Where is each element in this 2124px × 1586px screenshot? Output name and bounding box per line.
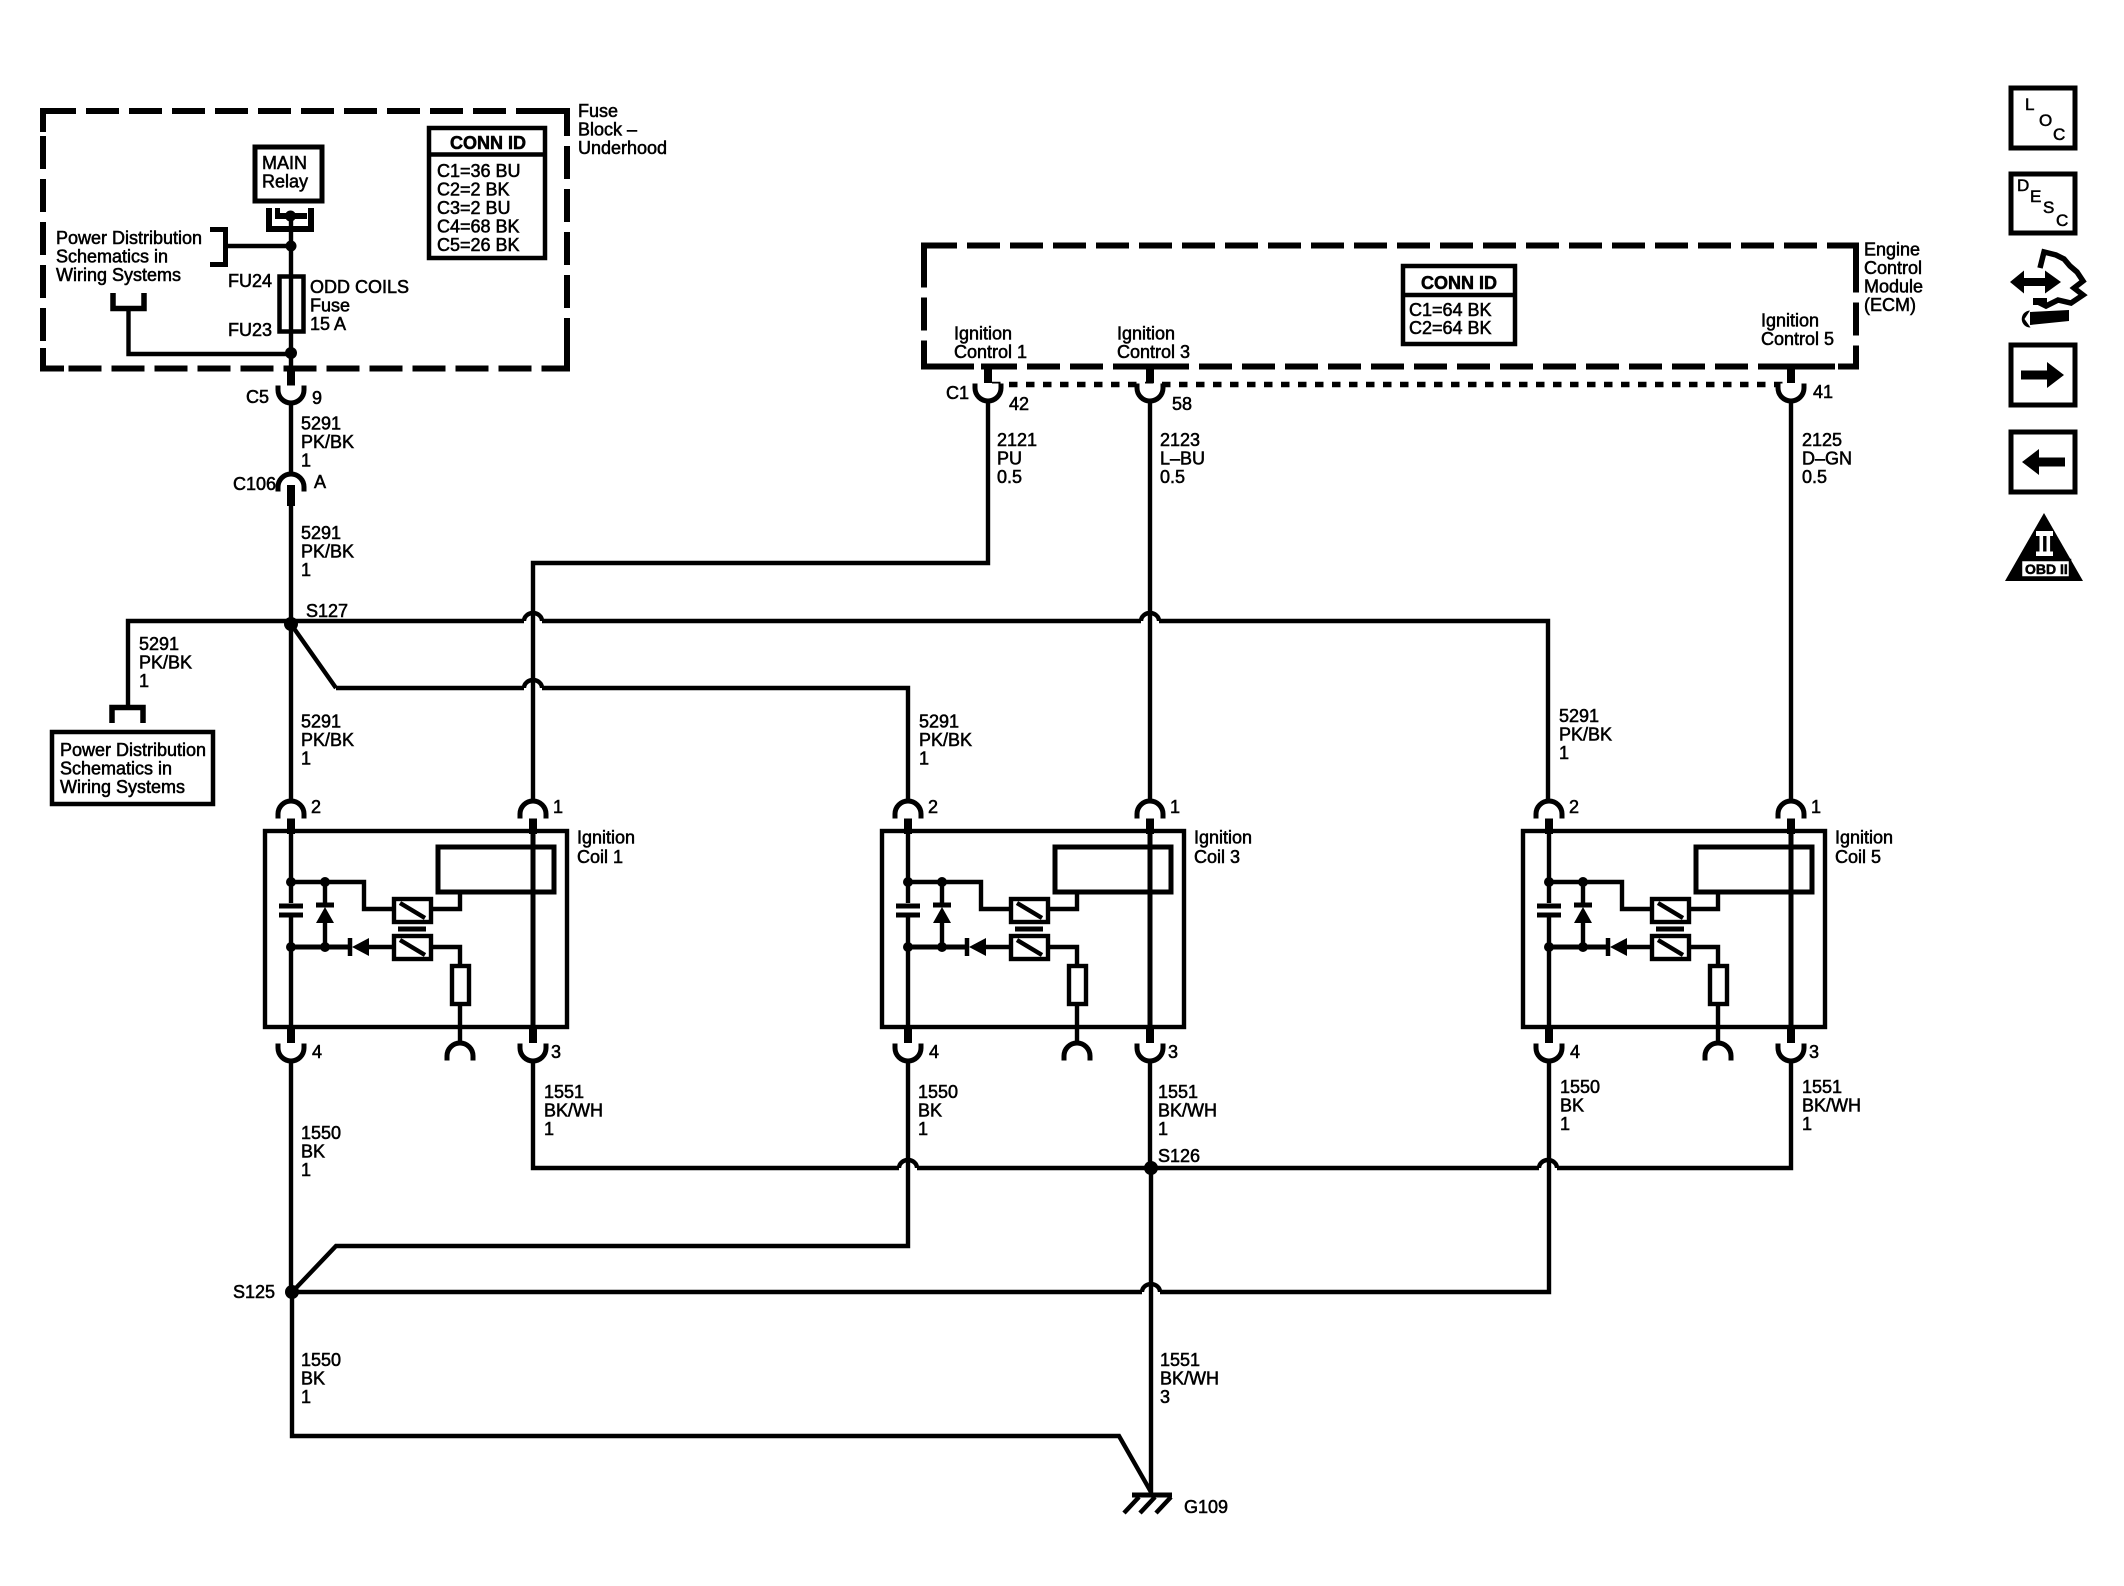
svg-text:1: 1 — [1158, 1119, 1168, 1139]
svg-text:2123: 2123 — [1160, 430, 1200, 450]
wire bracket to relay output — [225, 244, 291, 248]
junction dot below relay — [286, 241, 297, 252]
svg-text:Coil 5: Coil 5 — [1835, 847, 1881, 867]
svg-text:C5=26 BK: C5=26 BK — [437, 235, 520, 255]
svg-text:ODD COILS: ODD COILS — [310, 277, 409, 297]
fuse ODD COILS body — [280, 277, 304, 332]
crossover hop at coil5 pin4 wire — [1539, 1160, 1557, 1168]
crossover hop at coil1 pin1 wire — [524, 613, 542, 621]
crossover hop at coil1 pin1 wire — [524, 680, 542, 688]
svg-text:1: 1 — [301, 1160, 311, 1180]
svg-text:5291: 5291 — [1559, 706, 1599, 726]
svg-text:15 A: 15 A — [310, 314, 346, 334]
svg-text:1550: 1550 — [1560, 1077, 1600, 1097]
wire C5 to C106 — [289, 401, 293, 475]
wire S126 to ground G109 — [1149, 1168, 1153, 1494]
svg-text:PK/BK: PK/BK — [301, 730, 354, 750]
wire 2123 L-BU: pin 58 to coil 3 pin 1 — [1148, 399, 1152, 802]
svg-text:OBD II: OBD II — [2025, 561, 2068, 577]
svg-text:PK/BK: PK/BK — [301, 432, 354, 452]
svg-text:O: O — [2039, 111, 2052, 130]
CONN ID table (fuse block) — [429, 128, 545, 258]
svg-text:2121: 2121 — [997, 430, 1037, 450]
ECM pin 41 — [1787, 366, 1795, 383]
power distribution feed bracket (lower) — [113, 293, 144, 309]
ECM border solid segments at pin exits — [981, 364, 1835, 370]
connector C5 pin 9 — [287, 366, 295, 386]
svg-text:BK: BK — [1560, 1096, 1584, 1116]
harness routing icon (double arrow, connector outline, wrench) — [2010, 252, 2083, 328]
ECM pin 42 — [984, 366, 992, 383]
wire S127 to coil 3 pin 2 (diagonal, with crossover) — [293, 627, 908, 802]
power distribution reference bracket (top) — [210, 230, 226, 265]
wire coil 1 pin 3 to splice S126 line — [533, 1059, 1791, 1168]
svg-text:3: 3 — [1160, 1387, 1170, 1407]
svg-text:0.5: 0.5 — [997, 467, 1022, 487]
wire coil 1 pin 4 down to splice S125 — [289, 1059, 293, 1288]
svg-text:Control 3: Control 3 — [1117, 342, 1190, 362]
svg-text:C1=36 BU: C1=36 BU — [437, 161, 521, 181]
svg-text:Ignition: Ignition — [1835, 828, 1893, 848]
svg-text:D–GN: D–GN — [1802, 449, 1852, 469]
splice S126 — [1144, 1161, 1158, 1175]
svg-text:1: 1 — [918, 1119, 928, 1139]
wire S125 diagonal to coil 3 pin 4 — [295, 1059, 908, 1289]
svg-text:1: 1 — [301, 749, 311, 769]
svg-text:PU: PU — [997, 449, 1022, 469]
svg-text:0.5: 0.5 — [1802, 467, 1827, 487]
svg-text:Wiring Systems: Wiring Systems — [56, 265, 181, 285]
svg-text:G109: G109 — [1184, 1497, 1228, 1517]
svg-text:PK/BK: PK/BK — [919, 730, 972, 750]
svg-text:S127: S127 — [306, 601, 348, 621]
svg-text:C1: C1 — [946, 383, 969, 403]
svg-text:1: 1 — [301, 451, 311, 471]
wire S125 to coil 5 pin 4 (with crossover) — [292, 1059, 1549, 1292]
svg-text:0.5: 0.5 — [1160, 467, 1185, 487]
LOC icon box — [2011, 88, 2075, 148]
svg-text:Ignition: Ignition — [577, 828, 635, 848]
fuse block outline corners — [43, 111, 567, 369]
svg-text:A: A — [314, 472, 326, 492]
svg-text:PK/BK: PK/BK — [1559, 725, 1612, 745]
svg-text:1: 1 — [139, 671, 149, 691]
svg-text:FU23: FU23 — [228, 320, 272, 340]
svg-text:BK: BK — [301, 1369, 325, 1389]
svg-text:Ignition: Ignition — [1117, 324, 1175, 344]
svg-text:C4=68 BK: C4=68 BK — [437, 217, 520, 237]
svg-text:5291: 5291 — [301, 712, 341, 732]
svg-text:BK/WH: BK/WH — [544, 1101, 603, 1121]
svg-text:Coil 1: Coil 1 — [577, 847, 623, 867]
svg-text:1551: 1551 — [544, 1082, 584, 1102]
svg-text:1551: 1551 — [1802, 1077, 1842, 1097]
svg-text:(ECM): (ECM) — [1864, 295, 1916, 315]
svg-text:41: 41 — [1813, 382, 1833, 402]
svg-text:Ignition: Ignition — [1761, 311, 1819, 331]
svg-text:1: 1 — [1802, 1114, 1812, 1134]
svg-text:1: 1 — [1560, 1114, 1570, 1134]
MAIN Relay box — [255, 147, 322, 201]
svg-text:5291: 5291 — [139, 634, 179, 654]
ECM pin 58 — [1146, 366, 1154, 383]
splice S125 — [285, 1285, 299, 1299]
ignition coil 3 — [882, 797, 1184, 1062]
splice S127 — [284, 617, 298, 631]
svg-text:S126: S126 — [1158, 1146, 1200, 1166]
svg-text:L: L — [2025, 95, 2034, 114]
svg-text:1550: 1550 — [301, 1350, 341, 1370]
ignition coil 5 — [1523, 797, 1825, 1062]
svg-text:1551: 1551 — [1158, 1082, 1198, 1102]
relay cavity bracket — [269, 208, 311, 229]
svg-text:CONN ID: CONN ID — [1421, 273, 1497, 293]
svg-text:Control 5: Control 5 — [1761, 329, 1834, 349]
wire S127 to left power distribution bracket — [128, 621, 291, 705]
CONN ID table (ECM) — [1403, 266, 1515, 344]
svg-text:S: S — [2043, 198, 2054, 217]
svg-text:Fuse: Fuse — [578, 101, 618, 121]
svg-text:BK: BK — [301, 1142, 325, 1162]
svg-text:CONN ID: CONN ID — [450, 133, 526, 153]
svg-text:1551: 1551 — [1160, 1350, 1200, 1370]
svg-text:42: 42 — [1009, 394, 1029, 414]
svg-text:Power Distribution: Power Distribution — [56, 228, 202, 248]
crossover hop at coil3 pin1 wire — [1141, 613, 1159, 621]
svg-text:C106: C106 — [233, 474, 276, 494]
svg-text:C5: C5 — [246, 387, 269, 407]
ECM C1 connector face dotted line — [992, 382, 1791, 388]
svg-text:Underhood: Underhood — [578, 138, 667, 158]
svg-text:Schematics in: Schematics in — [60, 759, 172, 779]
svg-text:Control 1: Control 1 — [954, 342, 1027, 362]
wire coil 3 pin 3 down to S126 — [1148, 1059, 1152, 1168]
svg-text:C: C — [2053, 125, 2065, 144]
ground G109 symbol — [1132, 1493, 1172, 1498]
svg-text:BK: BK — [918, 1101, 942, 1121]
svg-text:5291: 5291 — [919, 712, 959, 732]
svg-text:C2=2 BK: C2=2 BK — [437, 180, 510, 200]
svg-text:1: 1 — [301, 560, 311, 580]
svg-text:1550: 1550 — [918, 1082, 958, 1102]
svg-text:1: 1 — [919, 749, 929, 769]
svg-text:Block –: Block – — [578, 120, 637, 140]
svg-text:BK/WH: BK/WH — [1158, 1101, 1217, 1121]
svg-text:1: 1 — [1559, 743, 1569, 763]
svg-text:C2=64 BK: C2=64 BK — [1409, 318, 1492, 338]
svg-text:Relay: Relay — [262, 172, 308, 192]
DESC icon box — [2011, 174, 2075, 233]
relay contact bar — [275, 213, 307, 219]
svg-text:5291: 5291 — [301, 414, 341, 434]
wire lower bracket to fuse bottom junction — [129, 308, 292, 354]
relay output junction — [285, 211, 296, 222]
crossover hop at coil3 pin4 wire — [899, 1160, 917, 1168]
wire 2121 PU: pin 42 to coil 1 pin 1 — [533, 399, 988, 802]
ECM outline corners — [924, 246, 1856, 367]
power distribution bracket (left, open down) — [112, 708, 143, 724]
wire S127 to coil 5 pin 2 (with crossovers) — [291, 621, 1548, 802]
svg-text:Module: Module — [1864, 277, 1923, 297]
connector C106 pin A — [278, 474, 304, 492]
wire S127 down to coil 1 pin 2 — [289, 624, 293, 802]
backward reference arrow icon — [2011, 432, 2075, 492]
svg-text:1550: 1550 — [301, 1123, 341, 1143]
svg-text:Schematics in: Schematics in — [56, 247, 168, 267]
svg-text:L–BU: L–BU — [1160, 449, 1205, 469]
svg-text:Wiring Systems: Wiring Systems — [60, 777, 185, 797]
wire 2125 D-GN: pin 41 to coil 5 pin 1 — [1789, 399, 1793, 802]
svg-text:BK/WH: BK/WH — [1802, 1096, 1861, 1116]
svg-text:2125: 2125 — [1802, 430, 1842, 450]
svg-text:BK/WH: BK/WH — [1160, 1369, 1219, 1389]
svg-text:1: 1 — [544, 1119, 554, 1139]
forward reference arrow icon — [2011, 345, 2075, 405]
svg-text:S125: S125 — [233, 1282, 275, 1302]
svg-text:C: C — [2056, 211, 2068, 230]
svg-text:C3=2 BU: C3=2 BU — [437, 198, 511, 218]
power distribution note box (left) — [52, 732, 213, 804]
svg-text:Ignition: Ignition — [1194, 828, 1252, 848]
junction dot below fuse — [285, 347, 297, 359]
wire S125 down and across to ground G109 — [292, 1292, 1151, 1492]
fuse block dashed outline — [43, 111, 567, 369]
ignition coil 1 — [265, 797, 567, 1062]
svg-text:Coil 3: Coil 3 — [1194, 847, 1240, 867]
svg-text:C1=64 BK: C1=64 BK — [1409, 300, 1492, 320]
svg-text:Power Distribution: Power Distribution — [60, 740, 206, 760]
OBD II icon — [2005, 513, 2083, 581]
svg-text:MAIN: MAIN — [262, 153, 307, 173]
svg-text:Ignition: Ignition — [954, 324, 1012, 344]
svg-text:E: E — [2030, 187, 2041, 206]
svg-text:5291: 5291 — [301, 523, 341, 543]
main feed wire from relay through fuse — [289, 216, 293, 366]
svg-text:Engine: Engine — [1864, 240, 1920, 260]
svg-text:Control: Control — [1864, 258, 1922, 278]
ECM dashed outline — [924, 246, 1856, 367]
crossover hop at S126 ground wire — [1142, 1284, 1160, 1292]
svg-text:PK/BK: PK/BK — [301, 542, 354, 562]
svg-text:1: 1 — [301, 1387, 311, 1407]
svg-text:PK/BK: PK/BK — [139, 653, 192, 673]
svg-text:FU24: FU24 — [228, 271, 272, 291]
svg-text:D: D — [2017, 176, 2029, 195]
wire C106 to splice S127 — [289, 505, 293, 621]
svg-text:Fuse: Fuse — [310, 296, 350, 316]
svg-text:58: 58 — [1172, 394, 1192, 414]
svg-text:9: 9 — [312, 388, 322, 408]
